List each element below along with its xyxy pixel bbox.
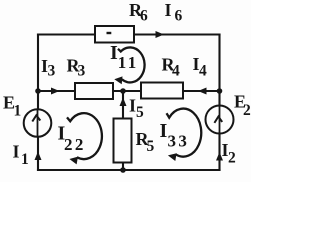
svg-text:I: I (165, 0, 172, 20)
wire: right vertical branch (218, 35, 220, 171)
arrow I3 on middle wire (51, 88, 60, 95)
wire: middle vertical branch (122, 91, 124, 170)
wire: middle horizontal branch (38, 90, 220, 92)
wire: left vertical branch (37, 35, 39, 171)
resistor R3 (75, 83, 113, 99)
svg-text:2: 2 (228, 150, 236, 167)
svg-text:1: 1 (21, 151, 29, 168)
svg-text:2: 2 (243, 102, 251, 119)
loop arrow I11 (114, 47, 144, 84)
source E1 (24, 109, 52, 137)
svg-text:I: I (129, 96, 136, 116)
svg-text:6: 6 (175, 8, 183, 25)
svg-text:33: 33 (168, 132, 190, 151)
arrow I1 on left wire (pointing up) (35, 152, 42, 161)
arrow I6 on top wire (156, 31, 165, 38)
svg-text:5: 5 (136, 104, 144, 121)
wire: top branch (38, 33, 220, 35)
mark inside R6 (107, 32, 112, 34)
arrow I5 on middle vertical wire (pointing up) (120, 98, 127, 107)
node dot right (217, 88, 223, 94)
node dot middle top (120, 88, 126, 94)
svg-text:I: I (13, 142, 20, 162)
node dot middle bottom (120, 167, 126, 173)
svg-text:3: 3 (48, 63, 56, 80)
loop arrow I22 (67, 113, 102, 164)
resistor R5 (114, 119, 132, 163)
svg-text:11: 11 (118, 53, 139, 72)
arrow I2 on right wire (pointing up) (216, 152, 223, 161)
source E2 (206, 106, 234, 134)
wire: bottom branch (38, 169, 220, 171)
resistor R4 (141, 83, 183, 99)
node dot left (35, 88, 41, 94)
svg-text:4: 4 (199, 63, 207, 80)
svg-text:I: I (160, 120, 168, 142)
svg-text:6: 6 (140, 8, 148, 25)
svg-text:I: I (110, 42, 118, 64)
resistor R6 (95, 26, 134, 43)
svg-text:5: 5 (147, 138, 155, 155)
arrow I4 on middle wire (pointing left) (198, 88, 207, 95)
svg-text:4: 4 (172, 63, 180, 80)
svg-text:3: 3 (78, 63, 86, 80)
svg-text:22: 22 (64, 135, 86, 154)
svg-text:1: 1 (14, 103, 22, 120)
loop arrow I33 (167, 109, 202, 161)
